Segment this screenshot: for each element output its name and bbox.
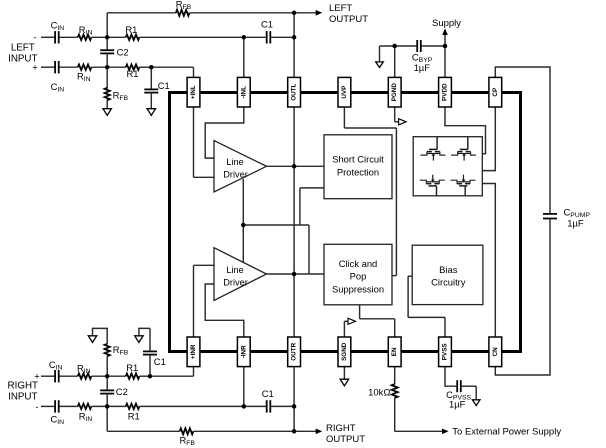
svg-text:C1: C1	[158, 80, 170, 91]
svg-text:R1: R1	[128, 411, 140, 422]
svg-text:PGND: PGND	[391, 83, 398, 102]
svg-text:LEFT: LEFT	[329, 3, 352, 14]
svg-text:C1: C1	[262, 388, 274, 399]
svg-text:1µF: 1µF	[414, 62, 431, 73]
svg-text:CP: CP	[492, 88, 499, 97]
svg-text:10kΩ: 10kΩ	[368, 387, 390, 398]
svg-text:1µF: 1µF	[567, 218, 584, 229]
svg-text:-INR: -INR	[240, 345, 247, 358]
svg-text:C1: C1	[261, 18, 273, 29]
svg-text:PVSS: PVSS	[442, 343, 449, 360]
svg-text:Pop: Pop	[350, 271, 367, 282]
svg-text:C1: C1	[154, 356, 166, 367]
svg-text:CN: CN	[492, 347, 499, 357]
svg-text:C2: C2	[116, 386, 128, 397]
svg-text:-: -	[35, 402, 38, 413]
svg-text:PVDD: PVDD	[442, 83, 449, 101]
svg-text:Supply: Supply	[432, 18, 461, 29]
svg-text:Suppression: Suppression	[332, 284, 384, 295]
svg-text:R1: R1	[127, 68, 139, 79]
svg-text:Line: Line	[226, 265, 243, 275]
svg-text:Driver: Driver	[223, 170, 248, 180]
svg-text:+INL: +INL	[190, 85, 197, 99]
svg-text:-: -	[33, 33, 36, 44]
svg-text:R1: R1	[126, 362, 138, 373]
svg-text:OUTPUT: OUTPUT	[326, 434, 365, 445]
svg-text:EN: EN	[391, 347, 398, 356]
svg-text:INPUT: INPUT	[8, 392, 37, 403]
svg-text:RIGHT: RIGHT	[326, 423, 356, 434]
svg-text:R1: R1	[125, 24, 137, 35]
svg-text:LEFT: LEFT	[11, 43, 35, 54]
svg-text:OUTPUT: OUTPUT	[329, 14, 368, 25]
svg-text:+INR: +INR	[190, 344, 197, 359]
svg-text:Short Circuit: Short Circuit	[332, 153, 384, 164]
svg-text:SGND: SGND	[341, 342, 348, 361]
svg-text:To External Power Supply: To External Power Supply	[452, 426, 561, 437]
svg-text:Circuitry: Circuitry	[431, 276, 466, 287]
svg-text:-INL: -INL	[240, 86, 247, 98]
svg-text:UVP: UVP	[341, 86, 348, 99]
svg-text:Protection: Protection	[337, 166, 379, 177]
svg-text:+: +	[34, 372, 40, 383]
svg-text:1µF: 1µF	[449, 399, 466, 410]
svg-text:Driver: Driver	[223, 278, 248, 288]
svg-text:Click and: Click and	[339, 258, 378, 269]
svg-text:OUTL: OUTL	[291, 83, 298, 100]
svg-text:Bias: Bias	[439, 264, 458, 275]
svg-text:Line: Line	[226, 157, 243, 167]
svg-text:C2: C2	[117, 47, 129, 58]
svg-text:+: +	[32, 63, 38, 74]
svg-text:OUTR: OUTR	[291, 342, 298, 360]
